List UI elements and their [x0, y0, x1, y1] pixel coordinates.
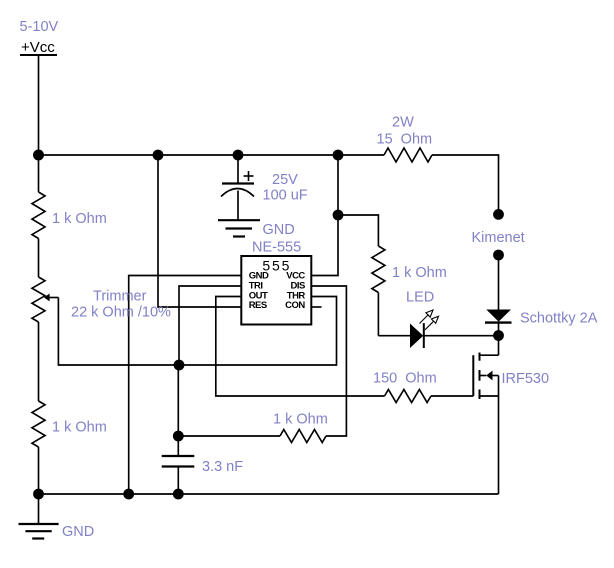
svg-text:100 uF: 100 uF — [263, 188, 308, 204]
svg-text:Schottky 2A: Schottky 2A — [520, 311, 598, 327]
wire pin CON stub — [311, 306, 321, 308]
wire pin VCC up to top rail — [311, 155, 338, 276]
wire ground rail — [39, 493, 499, 495]
wire pin GND to left vertical — [129, 276, 242, 495]
svg-text:1 k Ohm: 1 k Ohm — [52, 420, 107, 436]
svg-text:15 Ohm: 15 Ohm — [377, 132, 433, 148]
wire 1k right branch — [338, 215, 378, 246]
svg-text:22 k Ohm /10%: 22 k Ohm /10% — [71, 305, 171, 321]
svg-text:Kimenet: Kimenet — [472, 230, 525, 246]
svg-text:1 k Ohm: 1 k Ohm — [273, 412, 328, 428]
resistor 15 Ohm 2W — [384, 148, 432, 162]
MOSFET IRF530 — [498, 336, 500, 356]
svg-text:GND: GND — [263, 222, 295, 238]
svg-text:150 Ohm: 150 Ohm — [373, 371, 437, 387]
wire pin OUT down to 150 Ohm — [216, 297, 385, 397]
capacitor 3.3 nF — [162, 455, 195, 457]
ground (capacitor) — [218, 219, 260, 221]
wire 150 Ohm to gate — [431, 395, 473, 397]
wire MOSFET source/body down to ground rail — [498, 376, 500, 495]
svg-text:+Vcc: +Vcc — [21, 39, 55, 56]
svg-text:GND: GND — [62, 524, 94, 540]
svg-text:CON: CON — [285, 300, 305, 311]
wire pin TRI to node — [179, 286, 241, 365]
svg-text:25V: 25V — [272, 172, 298, 188]
resistor 1 k Ohm (right) — [372, 246, 385, 293]
LED light arrow 1 — [420, 310, 434, 324]
wire left rail top (Vcc to top rail) — [38, 55, 40, 192]
wire top rail — [39, 154, 385, 156]
pin labels left — [249, 271, 269, 312]
wire left rail middle — [38, 239, 40, 278]
svg-text:IRF530: IRF530 — [502, 371, 550, 387]
wire LED cathode to node — [424, 335, 499, 337]
LED cathode bar — [423, 323, 425, 348]
wire 1k branch to LED anode — [378, 335, 410, 337]
resistor 1 k Ohm (bottom middle) — [280, 430, 326, 443]
IC U1 NE-555 box — [241, 256, 311, 325]
trimmer 22 k Ohm zigzag — [32, 277, 45, 322]
svg-text:1 k Ohm: 1 k Ohm — [52, 211, 107, 227]
pin labels right — [285, 271, 305, 312]
svg-text:RES: RES — [249, 300, 267, 311]
svg-text:2W: 2W — [392, 115, 414, 131]
svg-text:LED: LED — [406, 290, 434, 306]
wire 1k right to LED — [377, 293, 379, 336]
wire left rail lower — [38, 322, 40, 401]
wire left rail to ground rail — [38, 447, 40, 494]
LED light arrow 2 — [425, 316, 439, 330]
wire diode to node — [498, 323, 500, 336]
wire pin RES up to top rail — [158, 155, 241, 307]
power +Vcc symbol bar — [20, 54, 57, 56]
svg-text:5-10V: 5-10V — [20, 19, 59, 35]
svg-text:1 k Ohm: 1 k Ohm — [392, 265, 447, 281]
svg-text:3.3 nF: 3.3 nF — [202, 459, 243, 475]
svg-text:Trimmer: Trimmer — [93, 289, 147, 305]
svg-text:NE-555: NE-555 — [252, 240, 301, 256]
wire output lower to diode — [498, 255, 500, 310]
wire top rail right corner down to output — [432, 155, 499, 214]
resistor 1 k Ohm (bottom left) — [32, 401, 45, 447]
wire node to cap 3.3nF — [177, 365, 179, 456]
resistor 150 Ohm — [385, 390, 432, 403]
wire wiper down and across (to THR) — [58, 297, 336, 366]
ground (left) — [38, 494, 40, 524]
wire pin DIS down to 1 k Ohm — [311, 286, 346, 436]
diode Schottky 2A — [486, 310, 511, 322]
capacitor 100 uF electrolytic — [237, 155, 239, 183]
resistor 1 k Ohm (top left) — [32, 192, 45, 239]
trimmer wiper arrow — [50, 297, 59, 299]
wire 1 k Ohm to cap node — [178, 435, 280, 437]
LED triangle — [410, 324, 423, 349]
